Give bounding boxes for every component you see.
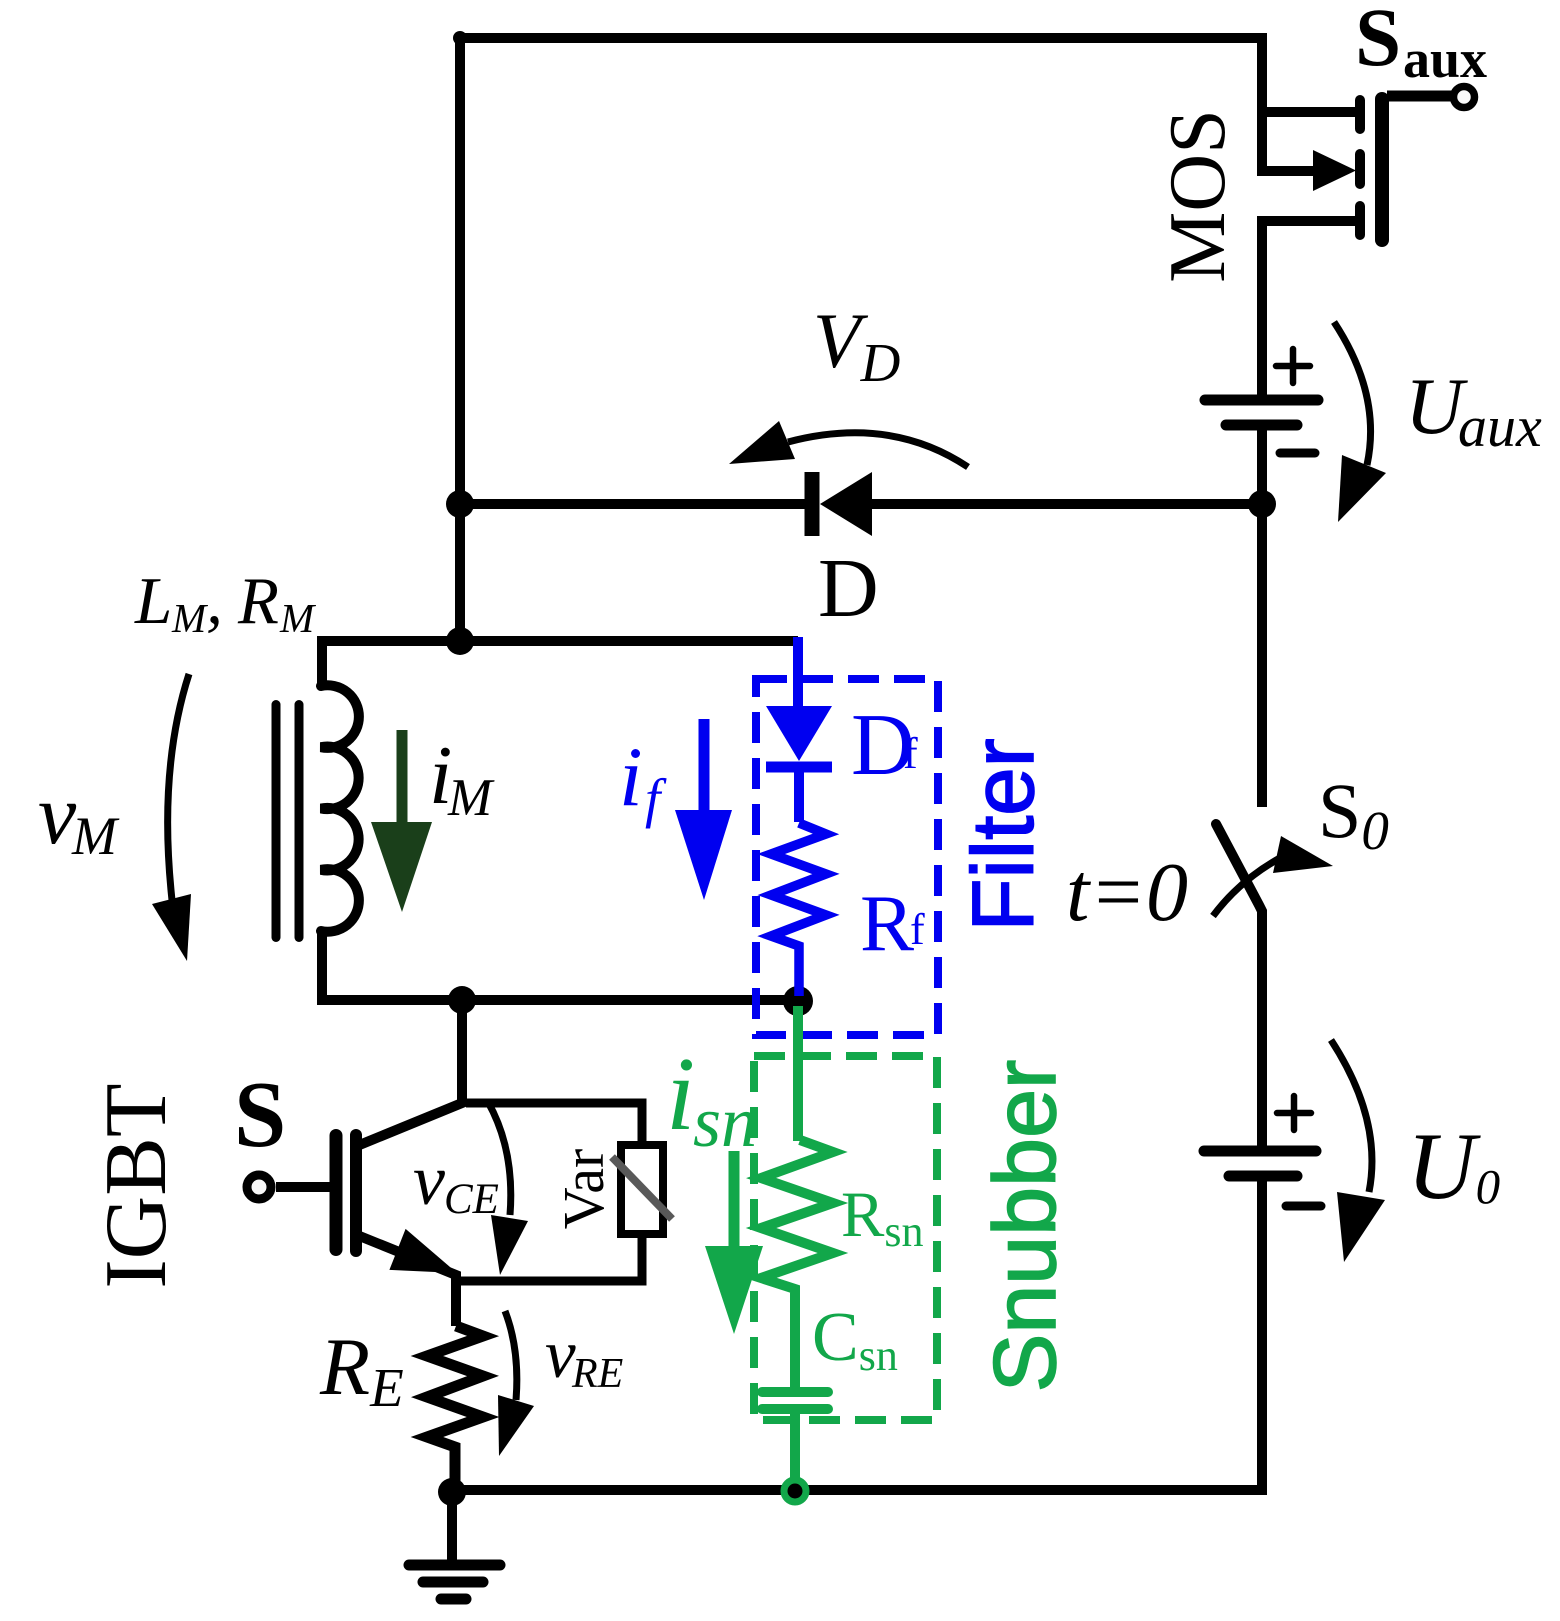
svg-text:IGBT: IGBT xyxy=(88,1083,185,1288)
svg-text:MOS: MOS xyxy=(1154,109,1242,282)
svg-text:Snubber: Snubber xyxy=(975,1060,1074,1393)
svg-text:D: D xyxy=(818,542,879,635)
svg-text:Var: Var xyxy=(551,1149,616,1230)
svg-text:Filter: Filter xyxy=(955,738,1052,931)
svg-text:Df: Df xyxy=(851,697,918,794)
svg-text:t=0: t=0 xyxy=(1066,846,1188,939)
svg-text:S: S xyxy=(234,1063,286,1167)
